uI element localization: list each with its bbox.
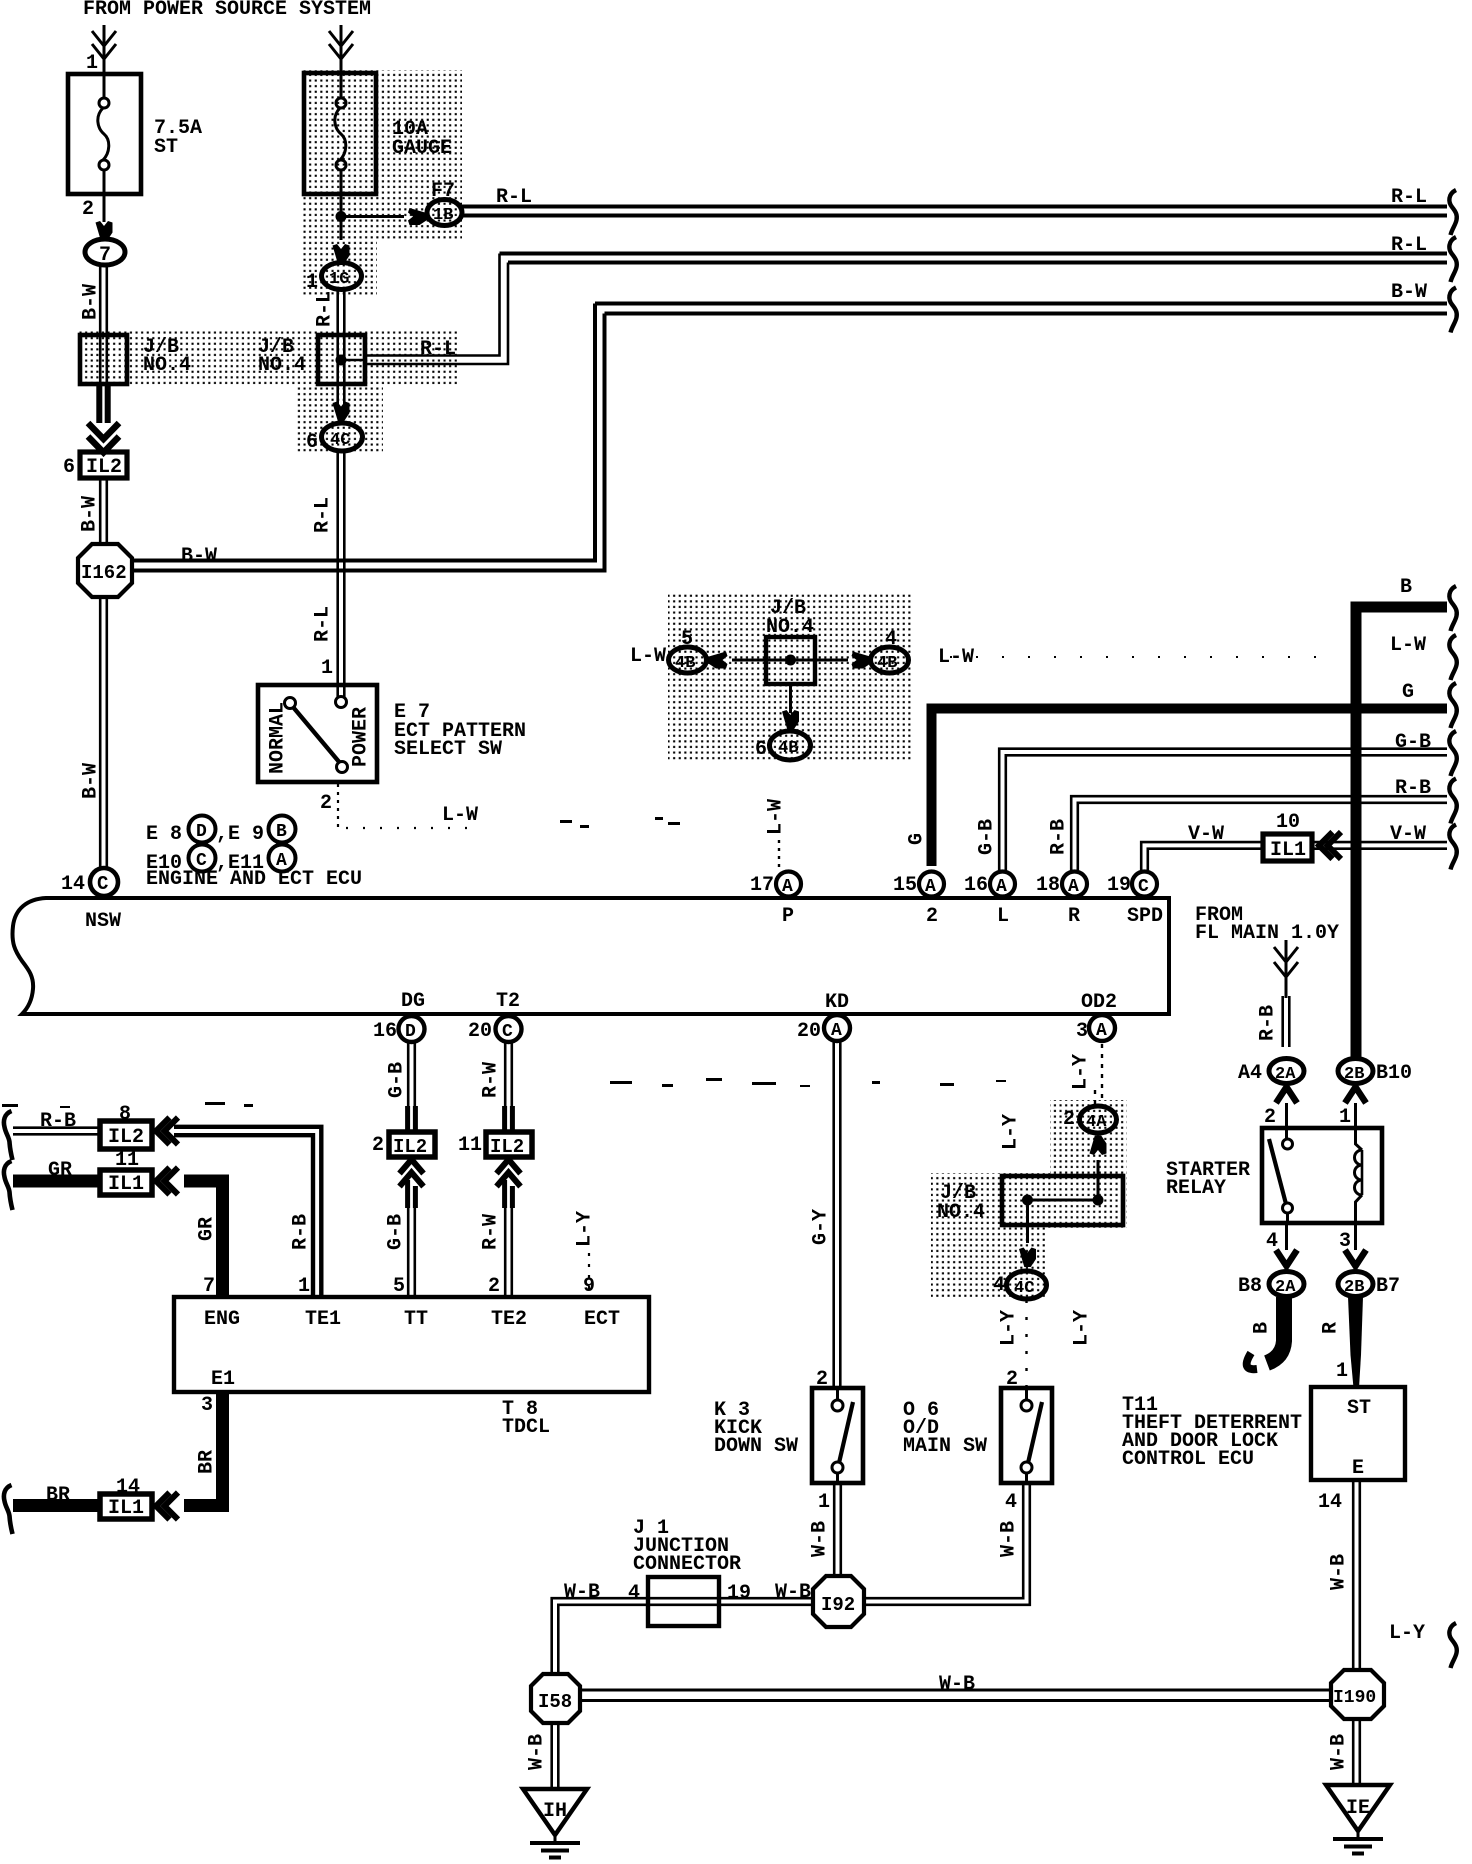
wire G-B from right edge to pin 16: [999, 749, 1447, 872]
chevron arrow up into 2A: [1276, 1087, 1297, 1103]
pin name NSW: [85, 910, 121, 933]
solid arrow down into connector 4C: [333, 402, 350, 422]
wire label R-L at right edge: [1391, 186, 1427, 209]
junction block J/B No.4 (left): [80, 335, 127, 384]
wire label R-L at right edge 2: [1391, 234, 1427, 257]
svg-text:A: A: [1096, 1021, 1107, 1041]
svg-text:G-B: G-B: [385, 1062, 408, 1098]
svg-text:B: B: [1400, 576, 1412, 599]
svg-text:L-Y: L-Y: [1389, 1622, 1425, 1645]
svg-text:19: 19: [1107, 874, 1131, 897]
svg-text:C: C: [97, 873, 108, 895]
wire label L-Y rotated below OD2: [1069, 1054, 1092, 1090]
continuation brace R-B right: [1449, 779, 1456, 824]
continuation brace R-L right 2: [1449, 237, 1456, 282]
svg-text:G: G: [905, 833, 928, 845]
svg-text:4C: 4C: [330, 431, 350, 450]
value label 10A GAUGE: [392, 118, 452, 160]
svg-text:2: 2: [372, 1134, 384, 1157]
wire R-W IL2 to TE2 pin: [505, 1206, 512, 1297]
svg-text:R-W: R-W: [479, 1062, 502, 1098]
pin circle D (DG): [399, 1016, 425, 1042]
relay coil: [1355, 1128, 1363, 1223]
connector oval 1B: [427, 200, 462, 226]
from FL MAIN feed arrow: [1274, 940, 1298, 998]
connector oval 2A (top): [1269, 1059, 1304, 1085]
wire G-B IL2 to TT pin: [408, 1206, 415, 1297]
svg-text:TDCL: TDCL: [502, 1416, 550, 1439]
wire label R-B at right edge: [1395, 777, 1431, 800]
svg-text:4: 4: [628, 1582, 640, 1605]
svg-text:B7: B7: [1376, 1275, 1400, 1298]
svg-text:L-Y: L-Y: [999, 1114, 1022, 1150]
wire label B-W at right edge: [1391, 281, 1427, 304]
svg-text:A: A: [831, 1021, 842, 1041]
wire label L-Y rotated (ECT): [573, 1211, 596, 1247]
wire down from middle J/B: [789, 684, 792, 713]
svg-text:R-W: R-W: [479, 1214, 502, 1250]
svg-text:7: 7: [203, 1275, 215, 1298]
svg-text:2: 2: [488, 1275, 500, 1298]
svg-text:OD2: OD2: [1081, 991, 1117, 1014]
svg-text:L-Y: L-Y: [997, 1310, 1020, 1346]
svg-text:DG: DG: [401, 990, 425, 1013]
svg-text:G-B: G-B: [1395, 731, 1431, 754]
switch K3 kick down SW: [812, 1388, 863, 1483]
wire label G-B rotated: [975, 819, 998, 855]
wire V-W right segment from edge to IL1: [1312, 842, 1447, 849]
svg-text:1: 1: [1336, 1360, 1348, 1383]
pin name OD2: [1081, 991, 1117, 1014]
wire W-B J1 left then down to I58: [552, 1598, 648, 1676]
svg-text:4B: 4B: [675, 654, 695, 673]
pin circle A (R): [1062, 872, 1087, 898]
pin B10 label: [1376, 1062, 1412, 1085]
svg-text:20: 20: [797, 1020, 821, 1043]
ECU box T11 theft deterrent (ST): [1311, 1387, 1405, 1480]
pin 5 label: [393, 1275, 405, 1298]
continuation brace B right: [1449, 586, 1456, 631]
svg-text:,E 9: ,E 9: [216, 823, 264, 846]
svg-text:B-W: B-W: [79, 284, 102, 320]
pin 6 label of bottom 4B: [755, 738, 767, 761]
scan noise dashes row: [2, 1078, 1006, 1108]
wire 2B to relay: [1354, 1103, 1357, 1130]
wire label G-B at right edge: [1395, 731, 1431, 754]
wire label L-Y rotated inside left: [999, 1114, 1022, 1150]
pin 17 label: [750, 874, 774, 897]
fuse F 7.5A ST: [68, 74, 141, 194]
svg-text:L-Y: L-Y: [1069, 1054, 1092, 1090]
svg-text:ENGINE AND ECT ECU: ENGINE AND ECT ECU: [146, 868, 362, 891]
wire R-W IL2 to TE2: [505, 1180, 513, 1208]
wire label R-L near F7: [496, 186, 532, 209]
svg-text:10: 10: [1276, 811, 1300, 834]
pin 1 label of K3: [818, 1491, 830, 1514]
continuation brace L-Y right: [1449, 1623, 1456, 1668]
svg-text:4B: 4B: [778, 739, 798, 758]
label 11 under IL2: [115, 1149, 139, 1172]
pin 1 label of ST: [1336, 1360, 1348, 1383]
svg-text:IL2: IL2: [86, 456, 122, 479]
svg-text:IE: IE: [1346, 1797, 1370, 1820]
svg-text:ECT: ECT: [584, 1308, 620, 1331]
pin 11 label of IL2 (R-W): [458, 1134, 482, 1157]
pin 2 label: [488, 1275, 500, 1298]
connector oval 2A (bottom): [1269, 1272, 1304, 1298]
connector IL1 (BR): [100, 1494, 152, 1520]
pin circle A (L): [990, 872, 1015, 898]
svg-text:IL2: IL2: [490, 1136, 524, 1158]
svg-text:SELECT SW: SELECT SW: [394, 738, 502, 761]
chevron arrow down into 2A bottom: [1276, 1250, 1297, 1266]
svg-text:2: 2: [1063, 1108, 1075, 1131]
continuation brace V-W right: [1449, 825, 1456, 870]
svg-text:D: D: [405, 1022, 416, 1042]
faded dotted wire L-W to right edge: [950, 656, 1340, 658]
svg-text:11: 11: [458, 1134, 482, 1157]
pin 20 label: [468, 1020, 492, 1043]
svg-text:V-W: V-W: [1390, 823, 1426, 846]
svg-text:R-L: R-L: [311, 497, 334, 533]
faded dashed wire L-W from E7 pin 2: [338, 784, 468, 832]
svg-text:B10: B10: [1376, 1062, 1412, 1085]
wire G-B heavy tail into IL2: [408, 1106, 416, 1132]
continuation brace G-B right: [1449, 731, 1456, 776]
svg-text:3: 3: [1076, 1020, 1088, 1043]
connector oval 4A: [1080, 1106, 1117, 1133]
svg-text:FROM POWER SOURCE SYSTEM: FROM POWER SOURCE SYSTEM: [83, 0, 371, 21]
svg-text:9: 9: [583, 1275, 595, 1298]
pin 4 label of 4C: [993, 1274, 1005, 1297]
svg-text:DOWN SW: DOWN SW: [714, 1435, 798, 1458]
TDCL box T8: [174, 1297, 649, 1392]
connector oval 1G: [322, 263, 362, 290]
continuation brace L-W right: [1449, 635, 1456, 680]
svg-text:2: 2: [1264, 1106, 1276, 1129]
svg-text:B: B: [1250, 1322, 1273, 1334]
faded dotted wire L-Y OD2 to 4A: [1095, 1044, 1102, 1104]
pin 6 label of 4C: [306, 431, 318, 454]
svg-text:4B: 4B: [877, 654, 897, 673]
svg-text:POWER: POWER: [349, 707, 372, 767]
wire R-B from right edge to pin 18: [1071, 796, 1447, 872]
wire B-W connector 7 to J/B No.4: [100, 265, 107, 337]
double chevron arrow up into IL2 R-W: [497, 1160, 521, 1187]
wire GR edge to IL1 thick: [13, 1175, 100, 1188]
pin 8 label of IL2: [119, 1103, 131, 1126]
wire label R-L: [311, 606, 334, 642]
internal link wire of starter J/B: [1028, 1199, 1099, 1202]
chevron arrow up into 2B: [1345, 1087, 1366, 1103]
svg-text:G: G: [1402, 681, 1414, 704]
junction dot right: [1093, 1195, 1104, 1206]
svg-text:20: 20: [468, 1020, 492, 1043]
svg-text:18: 18: [1036, 874, 1060, 897]
value label 7.5A ST: [154, 117, 202, 159]
continuation brace G right: [1449, 683, 1456, 728]
wire R-L to right edge: [500, 254, 1448, 263]
svg-text:IL2: IL2: [108, 1126, 144, 1149]
svg-text:R-B: R-B: [1395, 777, 1431, 800]
svg-text:A4: A4: [1238, 1062, 1262, 1085]
splice octagon I190: [1331, 1670, 1384, 1719]
wire G-Y KD pin down to K3: [834, 1041, 841, 1388]
pin name L: [997, 905, 1009, 928]
svg-text:2A: 2A: [1275, 1278, 1296, 1297]
pin 14 label of IL1 (BR): [116, 1476, 140, 1499]
wire BR thick E1 down and left to IL1: [184, 1392, 223, 1506]
svg-text:G-Y: G-Y: [809, 1209, 832, 1245]
svg-text:2B: 2B: [1344, 1278, 1364, 1297]
wire label W-B rotated (T11): [1327, 1554, 1350, 1590]
svg-text:6: 6: [306, 431, 318, 454]
continuation brace BR left: [4, 1485, 13, 1534]
wire G-B ECU pin D down through IL2: [408, 1042, 415, 1108]
wire R-W ECU pin C down through IL2: [505, 1042, 512, 1108]
svg-text:16: 16: [964, 874, 988, 897]
pin name T2: [496, 990, 520, 1013]
pin 5 label of left 4B: [681, 628, 693, 651]
halftone block middle J/B No.4: [668, 593, 912, 762]
connector oval 4B right: [871, 647, 909, 673]
wire label R-B rotated: [1256, 1005, 1279, 1041]
svg-text:7: 7: [99, 244, 111, 267]
svg-text:E1: E1: [211, 1368, 235, 1391]
junction dot inside J/B: [336, 355, 347, 366]
pin circle C (NSW): [90, 868, 118, 896]
label J/B NO.4 (left): [143, 336, 191, 377]
pin 1 label of fuse ST: [86, 52, 98, 75]
pin circle A (OD2): [1089, 1015, 1115, 1041]
svg-text:W-B: W-B: [525, 1734, 548, 1770]
double chevron arrow up into IL2 G-B: [400, 1160, 424, 1187]
continuation brace R-L right 1: [1449, 190, 1456, 235]
wire label W-B right of J1: [775, 1581, 811, 1604]
svg-text:L-Y: L-Y: [573, 1211, 596, 1247]
svg-text:G-B: G-B: [975, 819, 998, 855]
solid arrow down into 4B bottom: [782, 710, 799, 730]
svg-text:R-L: R-L: [1391, 234, 1427, 257]
svg-text:TE2: TE2: [491, 1308, 527, 1331]
continuation brace R-B left: [4, 1111, 13, 1160]
svg-text:RELAY: RELAY: [1166, 1177, 1226, 1200]
fuse F 10A GAUGE: [304, 73, 376, 194]
wire label R-B left: [40, 1110, 76, 1133]
wire label G-B rotated upper: [385, 1062, 408, 1098]
pin name 2: [926, 905, 938, 928]
svg-text:G-B: G-B: [384, 1214, 407, 1250]
pin circle A (KD): [824, 1015, 850, 1041]
wire label W-B rotated (O/D): [997, 1521, 1020, 1557]
connector oval 4C: [322, 423, 363, 451]
svg-text:GAUGE: GAUGE: [392, 137, 452, 160]
ECU ref labels E10 C E11 A: [146, 845, 296, 876]
pin 3 label of relay: [1339, 1230, 1351, 1253]
wire branch to F7: [341, 215, 404, 218]
svg-text:W-B: W-B: [1327, 1554, 1350, 1590]
wire label B-W horizontal: [181, 545, 217, 568]
svg-text:A: A: [782, 877, 793, 897]
wire B-W I162 down to ECU pin 14: [100, 597, 107, 870]
pin circle A (P): [776, 872, 801, 898]
svg-text:15: 15: [893, 874, 917, 897]
pin 2 label of fuse ST: [82, 198, 94, 221]
noise specks near L-W: [560, 817, 680, 828]
svg-text:1: 1: [298, 1275, 310, 1298]
wire label L-Y at right: [1389, 1622, 1425, 1645]
label J/B NO.4 (middle): [766, 597, 814, 639]
faded dashed wire L-W down to ECU pin 17: [778, 840, 780, 869]
svg-text:E 8: E 8: [146, 823, 182, 846]
svg-text:ST: ST: [1347, 1397, 1371, 1420]
svg-text:NSW: NSW: [85, 910, 121, 933]
junction block J/B No.4 (starter): [1002, 1176, 1123, 1225]
wire R-L riser up: [365, 254, 508, 365]
switch O5 O/D main SW: [1001, 1388, 1052, 1483]
svg-text:1: 1: [306, 271, 318, 294]
wire W-B I58 long to I190: [580, 1690, 1332, 1701]
svg-text:W-B: W-B: [775, 1581, 811, 1604]
svg-text:B8: B8: [1238, 1275, 1262, 1298]
label E7 ECT PATTERN SELECT SW: [394, 701, 526, 761]
svg-text:5: 5: [393, 1275, 405, 1298]
svg-text:KD: KD: [825, 991, 849, 1014]
svg-text:L-Y: L-Y: [1070, 1310, 1093, 1346]
label K3 KICK DOWN SW: [714, 1399, 798, 1458]
halftone band J/B No.4 row: [79, 331, 457, 454]
svg-text:R-B: R-B: [289, 1214, 312, 1250]
double chevron arrow into IL2: [88, 423, 119, 453]
svg-text:R-L: R-L: [420, 338, 456, 361]
ground IH: [523, 1789, 587, 1858]
svg-text:3: 3: [1339, 1230, 1351, 1253]
pin name R: [1068, 905, 1080, 928]
label STARTER RELAY: [1166, 1159, 1250, 1200]
pin 4 label of O/D: [1005, 1491, 1017, 1514]
double chevron arrow into IL1 GR: [156, 1168, 178, 1195]
svg-text:2: 2: [926, 905, 938, 928]
wire R-L branch right from J/B: [341, 359, 365, 362]
svg-text:1B: 1B: [433, 206, 453, 225]
svg-text:A: A: [996, 877, 1007, 897]
pin name ENG: [204, 1308, 240, 1331]
wire label BR rotated: [195, 1450, 218, 1474]
pin 2 label of IL2 (G-B): [372, 1134, 384, 1157]
svg-text:R: R: [1319, 1322, 1342, 1334]
title FROM POWER SOURCE SYSTEM: [83, 0, 371, 21]
wire relay pin3 down: [1354, 1223, 1357, 1250]
svg-text:I190: I190: [1333, 1688, 1376, 1708]
label FROM FL MAIN 1.0Y: [1195, 904, 1339, 945]
switch E7 ECT pattern select SW: [258, 685, 377, 782]
wire label R-L: [420, 338, 456, 361]
splice octagon I162: [78, 544, 132, 597]
wire R-L 1G to J/B No.4: [338, 290, 345, 338]
junction connector J1 box: [648, 1577, 719, 1626]
svg-text:FL MAIN 1.0Y: FL MAIN 1.0Y: [1195, 922, 1339, 945]
pin 4 label of J1: [628, 1582, 640, 1605]
chevron arrow down into 2B bottom: [1345, 1250, 1366, 1266]
pin circle A (2): [919, 872, 944, 898]
svg-text:NO.4: NO.4: [258, 354, 306, 377]
wire label R-B rotated: [289, 1214, 312, 1250]
svg-text:6: 6: [63, 456, 75, 479]
wire label W-B rotated: [808, 1521, 831, 1557]
pin name ECT: [584, 1308, 620, 1331]
svg-text:17: 17: [750, 874, 774, 897]
wire R-B edge to IL2: [13, 1128, 100, 1135]
svg-text:R-B: R-B: [1256, 1005, 1279, 1041]
svg-text:2A: 2A: [1275, 1065, 1296, 1084]
svg-text:NORMAL: NORMAL: [266, 702, 289, 774]
svg-text:NO.4: NO.4: [937, 1201, 985, 1224]
connector oval 4B left: [669, 647, 707, 673]
wire R-B FL MAIN to 2A: [1283, 996, 1290, 1047]
wire to right 4B: [791, 659, 849, 662]
svg-text:1: 1: [818, 1491, 830, 1514]
junction block middle J/B No.4 square: [766, 637, 815, 684]
pin 2 label of K3: [816, 1368, 828, 1391]
relay switch contacts: [1269, 1130, 1293, 1223]
svg-text:4C: 4C: [1014, 1279, 1034, 1298]
svg-text:L-W: L-W: [764, 799, 787, 835]
svg-text:ST: ST: [154, 136, 178, 159]
pin name ST: [1347, 1397, 1371, 1420]
pin B7 label: [1376, 1275, 1400, 1298]
svg-text:B-W: B-W: [1391, 281, 1427, 304]
wire label V-W left segment: [1188, 823, 1224, 846]
junction dot F7 branch: [336, 211, 347, 222]
wire label GR: [48, 1159, 72, 1182]
svg-text:TE1: TE1: [305, 1308, 341, 1331]
pin name P: [782, 905, 794, 928]
svg-text:W-B: W-B: [997, 1521, 1020, 1557]
pin 1 label: [298, 1275, 310, 1298]
connector oval 7: [85, 239, 125, 267]
wire W-B T11 pin14 down to I190: [1353, 1480, 1360, 1672]
pin 19 label: [1107, 874, 1131, 897]
svg-text:GR: GR: [195, 1217, 218, 1241]
halftone blocks starter J/B No.4: [931, 1100, 1127, 1300]
wire G-B IL2 to TT: [408, 1180, 416, 1208]
svg-text:CONNECTOR: CONNECTOR: [633, 1553, 741, 1576]
wire label GR rotated: [195, 1217, 218, 1241]
wire W-B I190 down to IE ground: [1353, 1719, 1360, 1786]
wire down from starter J/B: [1026, 1200, 1029, 1243]
wire B-W IL2 to I162: [100, 478, 107, 546]
pin 1 label of E7: [321, 657, 333, 680]
connector IL2 (G-B): [389, 1132, 435, 1158]
double chevron arrow into IL2 R-B: [156, 1118, 178, 1145]
wire W-B O/D down then left to I92: [864, 1483, 1030, 1605]
pin 15 label: [893, 874, 917, 897]
pin 3 label: [1076, 1020, 1088, 1043]
wire label R-W rotated upper: [479, 1062, 502, 1098]
svg-text:6: 6: [755, 738, 767, 761]
svg-text:I58: I58: [538, 1691, 572, 1713]
wire label V-W at right edge: [1390, 823, 1426, 846]
wire label R-W rotated lower: [479, 1214, 502, 1250]
svg-text:IL2: IL2: [393, 1136, 427, 1158]
pin circle C (SPD): [1132, 872, 1157, 898]
solid arrow down into connector 7: [96, 221, 113, 241]
solid arrow left into 4B: [708, 652, 728, 669]
svg-text:IH: IH: [543, 1800, 567, 1823]
ECU box ENGINE AND ECT ECU: [12, 898, 1169, 1014]
svg-text:V-W: V-W: [1188, 823, 1224, 846]
svg-text:4: 4: [1005, 1491, 1017, 1514]
